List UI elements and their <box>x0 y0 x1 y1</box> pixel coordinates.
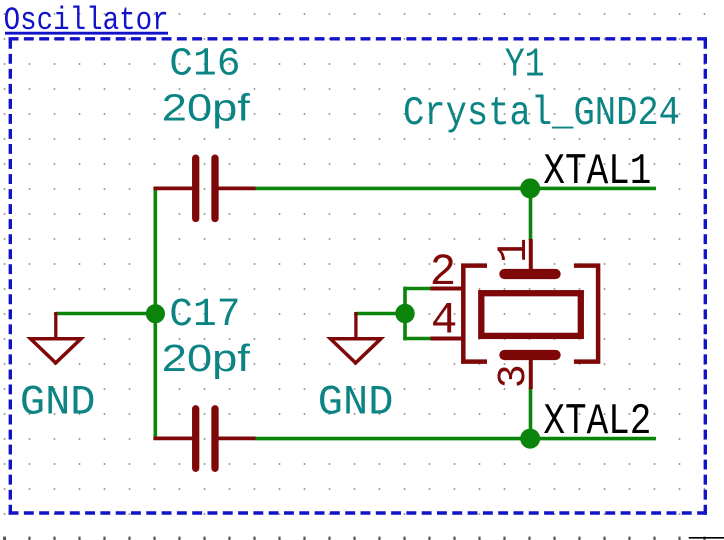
net label XTAL1 <box>543 148 651 197</box>
svg-text:Crystal_GND24: Crystal_GND24 <box>403 91 680 137</box>
pin number 4 <box>431 297 458 347</box>
capacitor C16 <box>153 158 255 218</box>
svg-text:XTAL2: XTAL2 <box>543 398 651 447</box>
wire: pin4 stub <box>403 337 431 341</box>
label GND1 <box>20 378 96 426</box>
title text Oscillator <box>4 2 169 39</box>
label GND2 <box>318 378 394 426</box>
svg-text:C16: C16 <box>169 41 240 86</box>
svg-text:2: 2 <box>430 248 457 298</box>
reference Y1 <box>505 43 545 89</box>
ground symbol GND2 <box>330 312 381 363</box>
title underline <box>5 32 168 35</box>
sheet line bottom right <box>689 537 724 539</box>
ground symbol GND1 <box>31 312 82 363</box>
value Crystal_GND24 <box>403 91 680 137</box>
crystal Y1 pin 1 lead <box>529 239 533 270</box>
value 20pf of C16 <box>162 88 250 130</box>
crystal Y1 pin 4 lead <box>431 337 465 341</box>
junction at C17 node <box>146 304 165 323</box>
wire: crystal pin1 vertical <box>529 188 533 240</box>
bottom edge grid ticks <box>3 537 706 540</box>
wire: pins 2-4 vertical link <box>403 287 407 341</box>
crystal Y1 pin 2 lead <box>431 287 465 291</box>
svg-text:GND: GND <box>318 378 394 426</box>
svg-text:GND: GND <box>20 378 96 426</box>
pin number 3 <box>492 364 537 388</box>
svg-text:4: 4 <box>431 297 458 347</box>
crystal Y1 body <box>481 274 581 355</box>
junction at XTAL1 node <box>520 178 540 198</box>
svg-text:Y1: Y1 <box>505 43 545 89</box>
crystal Y1 right shield bracket <box>574 266 598 362</box>
wire: XTAL1 horizontal rail <box>255 187 656 191</box>
junction at pins 2-4 node <box>395 304 414 323</box>
wire: GND1 to junction horizontal <box>56 312 157 316</box>
pin number 2 <box>430 248 457 298</box>
pin number 1 <box>490 238 538 263</box>
wire: pin2 stub <box>403 287 431 291</box>
label C16 <box>169 41 240 86</box>
crystal Y1 left shield bracket <box>463 266 487 362</box>
svg-text:C17: C17 <box>169 292 240 337</box>
svg-text:20pf: 20pf <box>162 338 250 380</box>
label C17 <box>169 292 240 337</box>
svg-text:20pf: 20pf <box>162 88 250 130</box>
wire: crystal pin3 vertical <box>529 388 533 439</box>
crystal Y1 pin 3 lead <box>529 359 533 389</box>
net label XTAL2 <box>543 398 651 447</box>
svg-text:XTAL1: XTAL1 <box>543 148 651 197</box>
wire: left vertical bus x=155 <box>154 187 158 440</box>
junction at XTAL2 node <box>520 429 540 449</box>
svg-text:1: 1 <box>490 238 538 263</box>
svg-text:3: 3 <box>492 364 537 388</box>
capacitor C17 <box>153 409 255 469</box>
wire: GND2 to junction horizontal <box>356 312 407 316</box>
wire: XTAL2 horizontal rail <box>255 437 656 441</box>
value 20pf of C17 <box>162 338 250 380</box>
